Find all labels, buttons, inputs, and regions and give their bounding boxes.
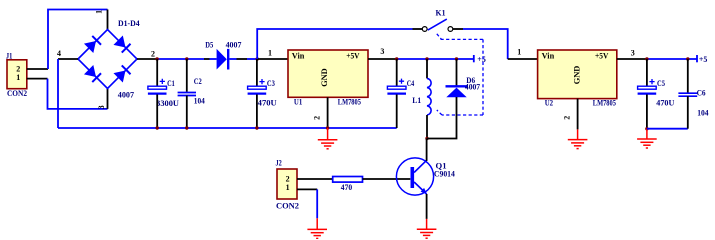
svg-text:U1: U1 xyxy=(294,97,302,106)
diode D5 xyxy=(217,49,227,70)
bridge rectifier D1-D4 outline xyxy=(78,30,137,89)
ground Q1 stem xyxy=(426,219,428,229)
node junction C2 xyxy=(185,57,188,60)
svg-text:4007: 4007 xyxy=(226,40,242,49)
svg-text:3: 3 xyxy=(97,105,106,109)
ground J2 xyxy=(307,228,327,230)
svg-text:3: 3 xyxy=(631,49,635,58)
diode D6 xyxy=(446,85,468,87)
connector J2 pin1 stub xyxy=(297,188,317,190)
inductor L1 bottom lead xyxy=(426,115,428,139)
regulator U1 pin 3 stub xyxy=(368,58,398,60)
svg-text:2: 2 xyxy=(286,174,290,183)
node junction C1 xyxy=(155,57,158,60)
wire bridge minus drop xyxy=(57,59,59,128)
svg-text:470U: 470U xyxy=(656,99,674,108)
transistor Q1 emitter arrow xyxy=(421,188,427,194)
capacitor C2 bottom lead xyxy=(186,96,188,129)
node junction C6 xyxy=(686,57,689,60)
wire C5 to C6 bottom xyxy=(647,128,688,130)
capacitor C6 top lead xyxy=(687,59,689,93)
svg-text:J2: J2 xyxy=(276,159,282,168)
node junction U1 ground xyxy=(326,126,329,129)
transistor Q1 emitter lead xyxy=(426,194,428,219)
node junction C1 bottom xyxy=(156,126,159,129)
diode D5 right lead xyxy=(229,58,236,60)
wire negative rail xyxy=(58,127,397,129)
wire J1 pin1 stub xyxy=(27,78,48,80)
ground J2 stem xyxy=(316,218,318,229)
capacitor C5 top lead xyxy=(646,59,648,86)
capacitor C3 xyxy=(248,86,267,89)
capacitor C4 top lead xyxy=(396,59,398,86)
node junction C4 xyxy=(395,57,398,60)
diode D6 bottom lead xyxy=(427,97,457,139)
wire node to K1 xyxy=(257,29,412,59)
svg-text:J1: J1 xyxy=(6,51,12,60)
capacitor C6 bottom lead xyxy=(687,96,689,129)
transistor Q1 circle xyxy=(396,158,433,195)
diode D5 left lead xyxy=(204,58,210,60)
svg-text:U2: U2 xyxy=(545,99,553,108)
svg-text:+5V: +5V xyxy=(595,51,609,60)
svg-text:3: 3 xyxy=(380,47,384,56)
transistor Q1 collector xyxy=(414,160,427,172)
capacitor C1 top lead xyxy=(156,59,158,86)
capacitor C3 bottom lead xyxy=(256,95,258,129)
wire K1 to U2 xyxy=(463,29,508,59)
svg-text:4: 4 xyxy=(57,49,61,58)
svg-text:470: 470 xyxy=(341,183,352,192)
power port +5 (relay) xyxy=(473,55,475,62)
svg-text:Vin: Vin xyxy=(542,51,555,60)
inductor L1 xyxy=(427,78,431,115)
regulator U2 pin 2 stub xyxy=(577,99,579,130)
transistor Q1 emitter xyxy=(414,182,427,194)
capacitor C5 bottom lead xyxy=(646,95,648,129)
wire J2 pin1 down xyxy=(316,189,318,218)
capacitor C4 xyxy=(387,86,406,89)
wire D5 to node xyxy=(247,58,257,60)
svg-text:+5: +5 xyxy=(699,55,708,64)
regulator U2 pin 1 stub xyxy=(508,58,538,60)
wire J1 pin1 to bridge bottom xyxy=(48,79,108,109)
op-amp U1 LM7805 body xyxy=(288,50,368,106)
power port +5 (output) xyxy=(696,55,698,62)
svg-text:C2: C2 xyxy=(194,77,202,86)
diode D3 (left-bottom edge) xyxy=(84,65,101,82)
switch K1 right pin xyxy=(453,28,463,30)
svg-text:C1: C1 xyxy=(167,79,175,88)
diode D2 (top-right edge) xyxy=(113,35,130,52)
capacitor C6 xyxy=(678,92,697,94)
capacitor C2 xyxy=(178,92,196,94)
switch K1 left pin xyxy=(413,28,423,30)
svg-text:4007: 4007 xyxy=(118,91,134,100)
svg-text:L1: L1 xyxy=(412,96,421,105)
node junction C5 xyxy=(645,57,648,60)
svg-text:470U: 470U xyxy=(258,99,277,108)
ground U2 xyxy=(568,139,588,141)
ground C5 xyxy=(637,138,657,140)
resistor R1 right lead xyxy=(363,178,411,180)
svg-text:C9014: C9014 xyxy=(434,170,455,179)
node junction C3/K1 xyxy=(256,57,259,60)
ground C5 stem xyxy=(646,129,648,139)
switch K1 arm xyxy=(428,19,447,30)
node junction D6 top xyxy=(455,57,458,60)
switch K1 right contact xyxy=(448,27,453,32)
svg-text:Vin: Vin xyxy=(292,51,305,60)
regulator U1 pin 1 stub xyxy=(257,58,288,60)
ground U1 xyxy=(318,139,338,141)
node junction C5 ground xyxy=(645,127,648,130)
svg-text:1: 1 xyxy=(286,183,290,192)
svg-text:CON2: CON2 xyxy=(276,201,299,210)
wire +5V rail U1 xyxy=(397,58,474,60)
bridge pin 2 stub (right vertex) xyxy=(137,58,157,60)
node junction C2 bottom xyxy=(185,126,188,129)
svg-text:C4: C4 xyxy=(407,79,415,88)
ground U1 stem xyxy=(327,128,329,140)
svg-text:C6: C6 xyxy=(697,89,706,98)
wire +5V rail U2 xyxy=(647,58,697,60)
svg-text:+5: +5 xyxy=(477,55,486,64)
svg-text:3300U: 3300U xyxy=(156,99,179,108)
svg-text:2: 2 xyxy=(151,50,155,59)
op-amp U2 LM7805 body xyxy=(538,50,617,108)
capacitor C1 bottom lead xyxy=(156,95,158,129)
svg-text:2: 2 xyxy=(313,116,322,120)
diode D6 top lead xyxy=(456,59,458,86)
node junction L1/D6/Q1 xyxy=(425,137,428,140)
regulator U1 pin 2 stub xyxy=(327,97,329,128)
bridge pin 1 (top vertex pin) xyxy=(107,10,109,30)
svg-text:C3: C3 xyxy=(267,79,275,88)
svg-text:1: 1 xyxy=(16,73,20,82)
relay dashed linkage xyxy=(437,34,483,115)
ground U2 stem xyxy=(577,129,579,139)
wire J1 pin2 stub xyxy=(27,68,48,70)
transistor Q1 collector lead xyxy=(426,139,428,161)
svg-text:D5: D5 xyxy=(205,40,213,49)
inductor L1 top lead xyxy=(426,59,428,78)
svg-text:4007: 4007 xyxy=(465,83,480,92)
svg-text:C5: C5 xyxy=(657,79,665,88)
capacitor C5 xyxy=(638,86,657,89)
svg-text:1: 1 xyxy=(268,49,272,58)
svg-text:104: 104 xyxy=(194,96,205,105)
switch K1 left contact xyxy=(422,27,427,32)
svg-text:1: 1 xyxy=(94,10,103,14)
node junction L1 top xyxy=(425,57,428,60)
svg-text:2: 2 xyxy=(563,116,572,120)
svg-text:LM7805: LM7805 xyxy=(593,99,616,108)
svg-text:CON2: CON2 xyxy=(7,89,27,98)
wire rail bridge to D5 xyxy=(157,58,204,60)
capacitor C2 top lead xyxy=(186,59,188,92)
svg-text:D1-D4: D1-D4 xyxy=(118,19,140,28)
node junction C3 bottom xyxy=(255,126,258,129)
ground Q1 xyxy=(417,228,437,230)
transistor Q1 base bar xyxy=(410,167,414,188)
svg-text:+5V: +5V xyxy=(346,51,360,60)
connector J2 xyxy=(276,159,300,211)
connector J2 pin2 stub xyxy=(297,178,333,180)
bridge pin 4 stub (left vertex) xyxy=(58,58,78,60)
regulator U2 pin 3 stub xyxy=(617,58,647,60)
diode D4 (bottom-right edge) xyxy=(113,65,130,82)
connector J1 xyxy=(6,51,27,98)
svg-text:GND: GND xyxy=(572,65,581,84)
diode D1 (left-top edge) xyxy=(84,36,101,53)
wire J1 pin2 to bridge top xyxy=(48,10,108,70)
bridge pin 3 (bottom vertex pin) xyxy=(107,89,109,109)
capacitor C1 xyxy=(148,86,167,89)
svg-text:104: 104 xyxy=(697,109,708,118)
svg-text:K1: K1 xyxy=(436,8,446,17)
svg-text:1: 1 xyxy=(517,48,521,57)
capacitor C4 bottom lead xyxy=(396,95,398,129)
capacitor C3 top lead xyxy=(256,59,258,86)
svg-text:GND: GND xyxy=(320,68,329,87)
svg-text:LM7805: LM7805 xyxy=(338,97,361,106)
resistor R1 470 xyxy=(333,177,363,183)
